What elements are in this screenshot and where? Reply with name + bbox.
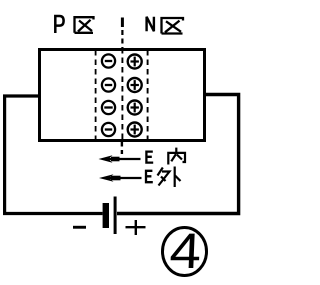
label P (55, 16, 63, 33)
wire left branch (box to left rail to bottom rail) (5, 96, 103, 214)
positive ion 3 (circled plus) (128, 101, 142, 115)
positive ion 2 (circled plus) (128, 78, 142, 92)
battery plus sign label (126, 220, 146, 235)
PN junction body (semiconductor block) (40, 50, 205, 141)
junction centre line below box (dashed) (121, 142, 123, 155)
arrow E-internal (points left) (99, 155, 141, 163)
label E of E内 (146, 152, 153, 163)
figure number circle (163, 228, 207, 276)
depletion boundary left (dashed) (95, 50, 97, 140)
label 内 of E内 (168, 148, 185, 165)
negative ion 4 (circled minus) (102, 123, 115, 136)
negative ion 1 (circled minus) (102, 54, 115, 67)
label 外 of E外 (158, 167, 181, 188)
positive ion 1 (circled plus) (128, 55, 142, 69)
junction centre line inside box (dashed) (121, 48, 123, 141)
negative ion 3 (circled minus) (102, 101, 115, 114)
svg-text:4: 4 (168, 224, 202, 279)
battery minus sign label (73, 226, 86, 229)
label 区 of P区 (75, 17, 94, 33)
arrow E-external (points left) (99, 174, 142, 182)
positive ion 4 (circled plus) (128, 123, 142, 137)
label E of E外 (146, 171, 153, 182)
label 区 of N区 (162, 18, 184, 34)
wire right branch (box to right rail to bottom rail) (117, 95, 239, 214)
battery negative plate (short thick) (103, 203, 109, 228)
label N (147, 17, 154, 31)
figure number 4 (168, 224, 202, 279)
depletion boundary right (dashed) (147, 50, 149, 140)
battery positive plate (long thin) (114, 197, 117, 235)
junction centre line above box (dashed) (121, 18, 124, 28)
negative ion 2 (circled minus) (102, 78, 115, 91)
